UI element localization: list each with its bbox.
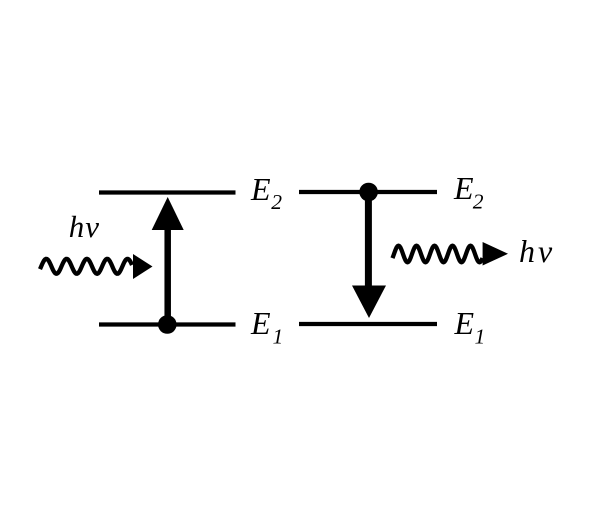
svg-text:hν: hν	[519, 233, 555, 269]
svg-text:1: 1	[475, 325, 486, 349]
svg-text:1: 1	[273, 324, 284, 348]
svg-text:2: 2	[473, 189, 484, 213]
svg-text:E: E	[453, 170, 474, 206]
svg-text:E: E	[250, 305, 271, 341]
svg-text:hν: hν	[69, 209, 100, 244]
svg-text:2: 2	[271, 190, 282, 214]
svg-text:E: E	[454, 305, 475, 341]
svg-text:E: E	[250, 171, 271, 207]
